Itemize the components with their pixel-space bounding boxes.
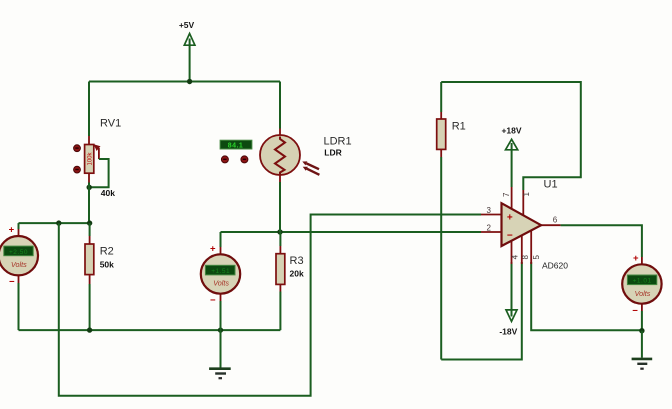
wire RV1 wiper — [91, 159, 109, 187]
svg-text:R1: R1 — [452, 121, 466, 133]
svg-text:40k: 40k — [101, 188, 115, 198]
svg-text:+1.51: +1.51 — [211, 268, 230, 275]
wire ground rail left — [19, 329, 281, 331]
node RV1 wiper junction — [87, 185, 92, 190]
svg-text:−: − — [9, 276, 15, 287]
svg-text:−: − — [507, 231, 513, 242]
voltmeter right — [622, 253, 661, 331]
svg-text:4: 4 — [511, 254, 520, 259]
svg-text:Volts: Volts — [213, 278, 229, 287]
wire reference net (pin5 to meter-) — [531, 262, 642, 330]
pin 5 stub — [530, 231, 532, 264]
LDR1 — [260, 82, 319, 233]
svg-text:+: + — [507, 212, 513, 223]
svg-text:7: 7 — [502, 192, 511, 197]
node tap/sense junction — [56, 220, 61, 225]
wire tap rail — [19, 222, 90, 224]
voltmeter left — [0, 223, 38, 330]
LDR1 lux display — [220, 140, 252, 150]
svg-text:LDR: LDR — [324, 148, 341, 158]
power +18V — [501, 125, 521, 187]
resistor R3 — [276, 232, 285, 330]
wire inverting rail — [221, 231, 482, 233]
ground left — [209, 369, 231, 379]
wire top +5V rail — [89, 81, 280, 83]
wire gain loop bottom — [441, 262, 522, 360]
potentiometer RV1 — [85, 136, 101, 183]
ground right — [632, 359, 653, 369]
resistor R1 — [437, 82, 446, 360]
svg-text:+2.50: +2.50 — [9, 249, 28, 256]
wire gain loop top — [441, 82, 581, 190]
svg-text:Volts: Volts — [635, 289, 651, 298]
node tap/R2 junction — [87, 220, 92, 225]
svg-text:Volts: Volts — [11, 260, 27, 269]
svg-text:6: 6 — [553, 215, 558, 224]
wire RV1 top lead — [88, 82, 90, 137]
wire right ground stem — [641, 331, 643, 358]
resistor R2 — [85, 223, 94, 330]
svg-text:20k: 20k — [290, 268, 304, 278]
RV1 adjust buttons — [74, 145, 81, 173]
svg-text:3: 3 — [487, 206, 492, 215]
power +5V — [179, 20, 195, 82]
pin 1 stub — [522, 190, 524, 215]
svg-text:8: 8 — [521, 254, 530, 259]
wire middle ground stem — [220, 330, 222, 368]
svg-text:U1: U1 — [544, 178, 558, 190]
svg-text:+: + — [9, 224, 15, 235]
svg-text:5: 5 — [532, 254, 541, 259]
wire RV1 bottom to tap rail — [88, 183, 90, 224]
node R2/ground rail — [87, 327, 92, 332]
pin 4 stub — [511, 241, 513, 264]
svg-text:+: + — [633, 253, 639, 264]
svg-text:RV1: RV1 — [100, 118, 121, 130]
op-amp U1 — [481, 203, 561, 246]
svg-text:+: + — [210, 243, 216, 254]
svg-text:50k: 50k — [100, 260, 114, 270]
svg-text:+18V: +18V — [501, 125, 521, 135]
node meter-/reference junction — [639, 328, 644, 333]
svg-text:AD620: AD620 — [542, 260, 568, 270]
wire output net — [561, 225, 642, 257]
svg-text:2: 2 — [487, 223, 492, 232]
pin 7 stub — [511, 187, 513, 209]
pin 8 stub — [521, 236, 523, 264]
svg-text:100k: 100k — [88, 151, 94, 165]
voltmeter middle — [201, 232, 240, 330]
svg-text:84.1: 84.1 — [228, 143, 244, 150]
svg-text:R2: R2 — [100, 245, 114, 257]
svg-text:LDR1: LDR1 — [324, 135, 352, 147]
power -18V — [499, 262, 517, 336]
wire sense down-left run — [59, 215, 481, 396]
node LDR/R3/inverting junction — [277, 229, 282, 234]
svg-text:+5V: +5V — [179, 20, 195, 30]
svg-text:−: − — [632, 305, 638, 316]
node meter2/ground rail — [218, 327, 223, 332]
svg-text:1: 1 — [522, 192, 531, 197]
svg-text:R3: R3 — [290, 255, 304, 267]
node +5V rail junction — [187, 79, 192, 84]
svg-text:−: − — [210, 295, 216, 306]
LDR1 adjust buttons — [221, 156, 248, 163]
svg-text:+1.01: +1.01 — [633, 278, 652, 285]
svg-text:-18V: -18V — [499, 326, 517, 336]
